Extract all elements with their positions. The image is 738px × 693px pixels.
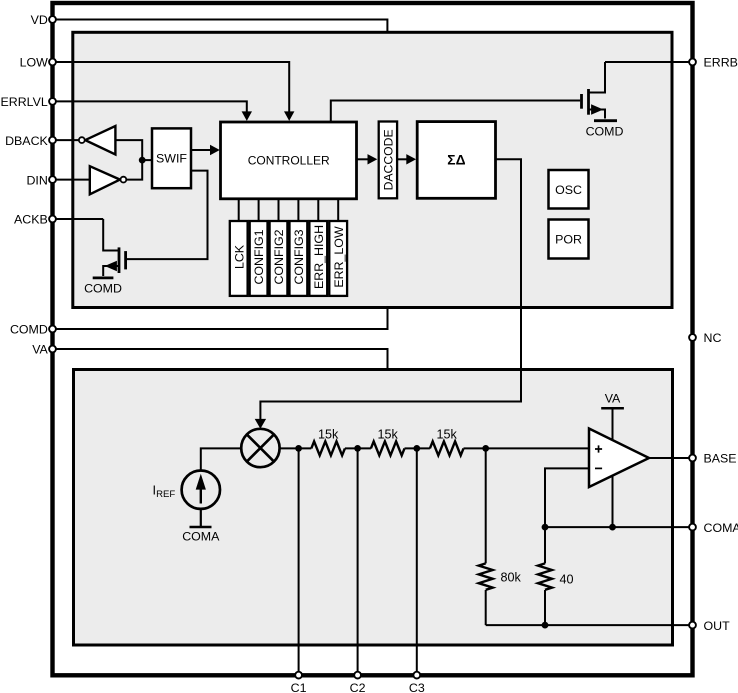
svg-text:15k: 15k [437, 428, 458, 442]
register CONFIG3 [290, 221, 308, 296]
wire DIN [53, 179, 90, 181]
svg-text:DIN: DIN [26, 173, 47, 187]
svg-text:CONFIG3: CONFIG3 [292, 229, 306, 284]
register ERR_LOW [329, 221, 347, 296]
multiplier X1 [241, 429, 279, 467]
wire LOW [53, 62, 295, 121]
wire multiplier to resistor chain [280, 447, 311, 449]
current source IREF [153, 471, 221, 509]
pin NC [689, 331, 721, 345]
wire VA [53, 349, 388, 370]
svg-text:LOW: LOW [20, 56, 49, 70]
pin ACKB [14, 213, 56, 227]
svg-text:VA: VA [32, 343, 48, 357]
svg-text:VA: VA [605, 392, 621, 406]
svg-text:40: 40 [560, 573, 574, 587]
svg-text:ERRB: ERRB [704, 56, 738, 70]
wire IREF to multiplier [201, 448, 241, 470]
svg-text:OSC: OSC [555, 183, 582, 197]
svg-text:CONTROLLER: CONTROLLER [248, 153, 330, 167]
wire DBACK [53, 139, 79, 141]
wire C3 [416, 448, 418, 675]
ground COMA IREF [182, 527, 220, 543]
wire controller to Q1 gate [331, 101, 580, 123]
svg-text:POR: POR [555, 233, 582, 247]
wire VD [53, 20, 388, 33]
wire IREF to ground [200, 509, 202, 527]
register CONFIG1 [250, 221, 268, 296]
inverter U3 input from DIN [90, 160, 142, 194]
pin VA [32, 343, 56, 357]
node C2 junction [354, 445, 361, 452]
svg-text:DACCODE: DACCODE [381, 129, 395, 190]
resistor 15k R1 [311, 428, 345, 456]
register CONFIG2 [270, 221, 288, 296]
transistor Q1 [582, 62, 606, 119]
svg-text:ERRLVL: ERRLVL [1, 95, 48, 109]
svg-text:ERR_HIGH: ERR_HIGH [312, 225, 326, 289]
ground COMD Q1 [586, 121, 624, 139]
wire R1 to R2 [345, 447, 371, 449]
svg-text:C1: C1 [291, 681, 307, 693]
wire COMA [545, 526, 693, 528]
svg-text:LCK: LCK [232, 244, 246, 269]
block CONTROLLER [221, 122, 357, 199]
block OSC [549, 170, 589, 209]
wire OUT [486, 622, 693, 629]
wire op-amp bottom to COMA [609, 477, 616, 531]
svg-text:BASE: BASE [704, 452, 737, 466]
power VA op-amp [601, 392, 624, 441]
resistor 80k R4 [479, 448, 522, 625]
wire COMD [53, 308, 388, 330]
svg-text:OUT: OUT [704, 619, 731, 633]
node C1 junction [295, 445, 302, 452]
svg-text:15k: 15k [318, 428, 339, 442]
wire Q1 drain to ERRB [605, 61, 693, 63]
pin COMD [10, 323, 56, 337]
wire DACCODE to sigma-delta [397, 154, 416, 164]
pin ERRLVL [1, 95, 56, 109]
svg-text:COMA: COMA [704, 521, 738, 535]
register LCK [230, 221, 248, 296]
op-amp U1 [589, 429, 649, 488]
block DACCODE [379, 122, 397, 199]
svg-text:DBACK: DBACK [5, 134, 48, 148]
wire controller to DACCODE [357, 154, 378, 164]
node inverter junction [139, 157, 152, 164]
pin DIN [26, 173, 55, 187]
svg-text:COMD: COMD [586, 124, 624, 138]
pin LOW [20, 56, 56, 70]
svg-text:COMD: COMD [84, 282, 122, 296]
pin OUT [689, 619, 730, 633]
register ERR_HIGH [309, 221, 327, 296]
node opamp plus junction [482, 445, 489, 452]
node COMA junction [542, 524, 549, 531]
transistor Q2 [103, 219, 125, 276]
pin C1 [291, 672, 307, 693]
resistor 15k R3 [430, 428, 464, 456]
wire sigma-delta to multiplier [255, 159, 521, 429]
analog block [74, 370, 673, 646]
pin VD [31, 13, 56, 27]
svg-text:15k: 15k [378, 428, 399, 442]
wire BASE [649, 457, 693, 459]
wire op-amp minus input [545, 468, 589, 527]
block POR [549, 220, 589, 259]
pin C2 [350, 672, 366, 693]
wire R2 to R3 [405, 447, 430, 449]
svg-text:ERR_LOW: ERR_LOW [332, 226, 346, 288]
svg-text:CONFIG2: CONFIG2 [272, 229, 286, 284]
block sigma-delta [417, 122, 495, 199]
pin COMA [689, 521, 738, 535]
svg-text:C3: C3 [409, 681, 425, 693]
svg-text:SWIF: SWIF [156, 152, 187, 166]
wire R3 to op-amp [464, 447, 590, 449]
svg-text:ACKB: ACKB [14, 213, 48, 227]
digital block [73, 32, 672, 307]
node C3 junction [413, 445, 420, 452]
svg-text:80k: 80k [501, 571, 522, 585]
pin BASE [689, 452, 736, 466]
wire ERRLVL [53, 101, 253, 121]
svg-text:VD: VD [31, 13, 48, 27]
wire SWIF to controller [191, 145, 220, 155]
wire C2 [357, 448, 359, 675]
svg-text:C2: C2 [350, 681, 366, 693]
wire ACKB [53, 218, 104, 220]
ground COMD Q2 [84, 278, 122, 296]
register stubs [239, 199, 339, 221]
block SWIF [152, 128, 191, 188]
pin ERRB [689, 56, 738, 70]
wire SWIF to Q2 gate [127, 171, 208, 260]
pin C3 [409, 672, 425, 693]
resistor 15k R2 [371, 428, 405, 456]
pin DBACK [5, 134, 56, 148]
svg-text:COMD: COMD [10, 323, 48, 337]
svg-text:ΣΔ: ΣΔ [447, 152, 465, 167]
svg-text:COMA: COMA [182, 529, 220, 543]
svg-text:NC: NC [704, 331, 722, 345]
wire C1 [298, 448, 300, 675]
resistor 40 R5 [538, 527, 574, 625]
svg-text:CONFIG1: CONFIG1 [252, 229, 266, 284]
inverter U2 output to DBACK [79, 126, 142, 160]
